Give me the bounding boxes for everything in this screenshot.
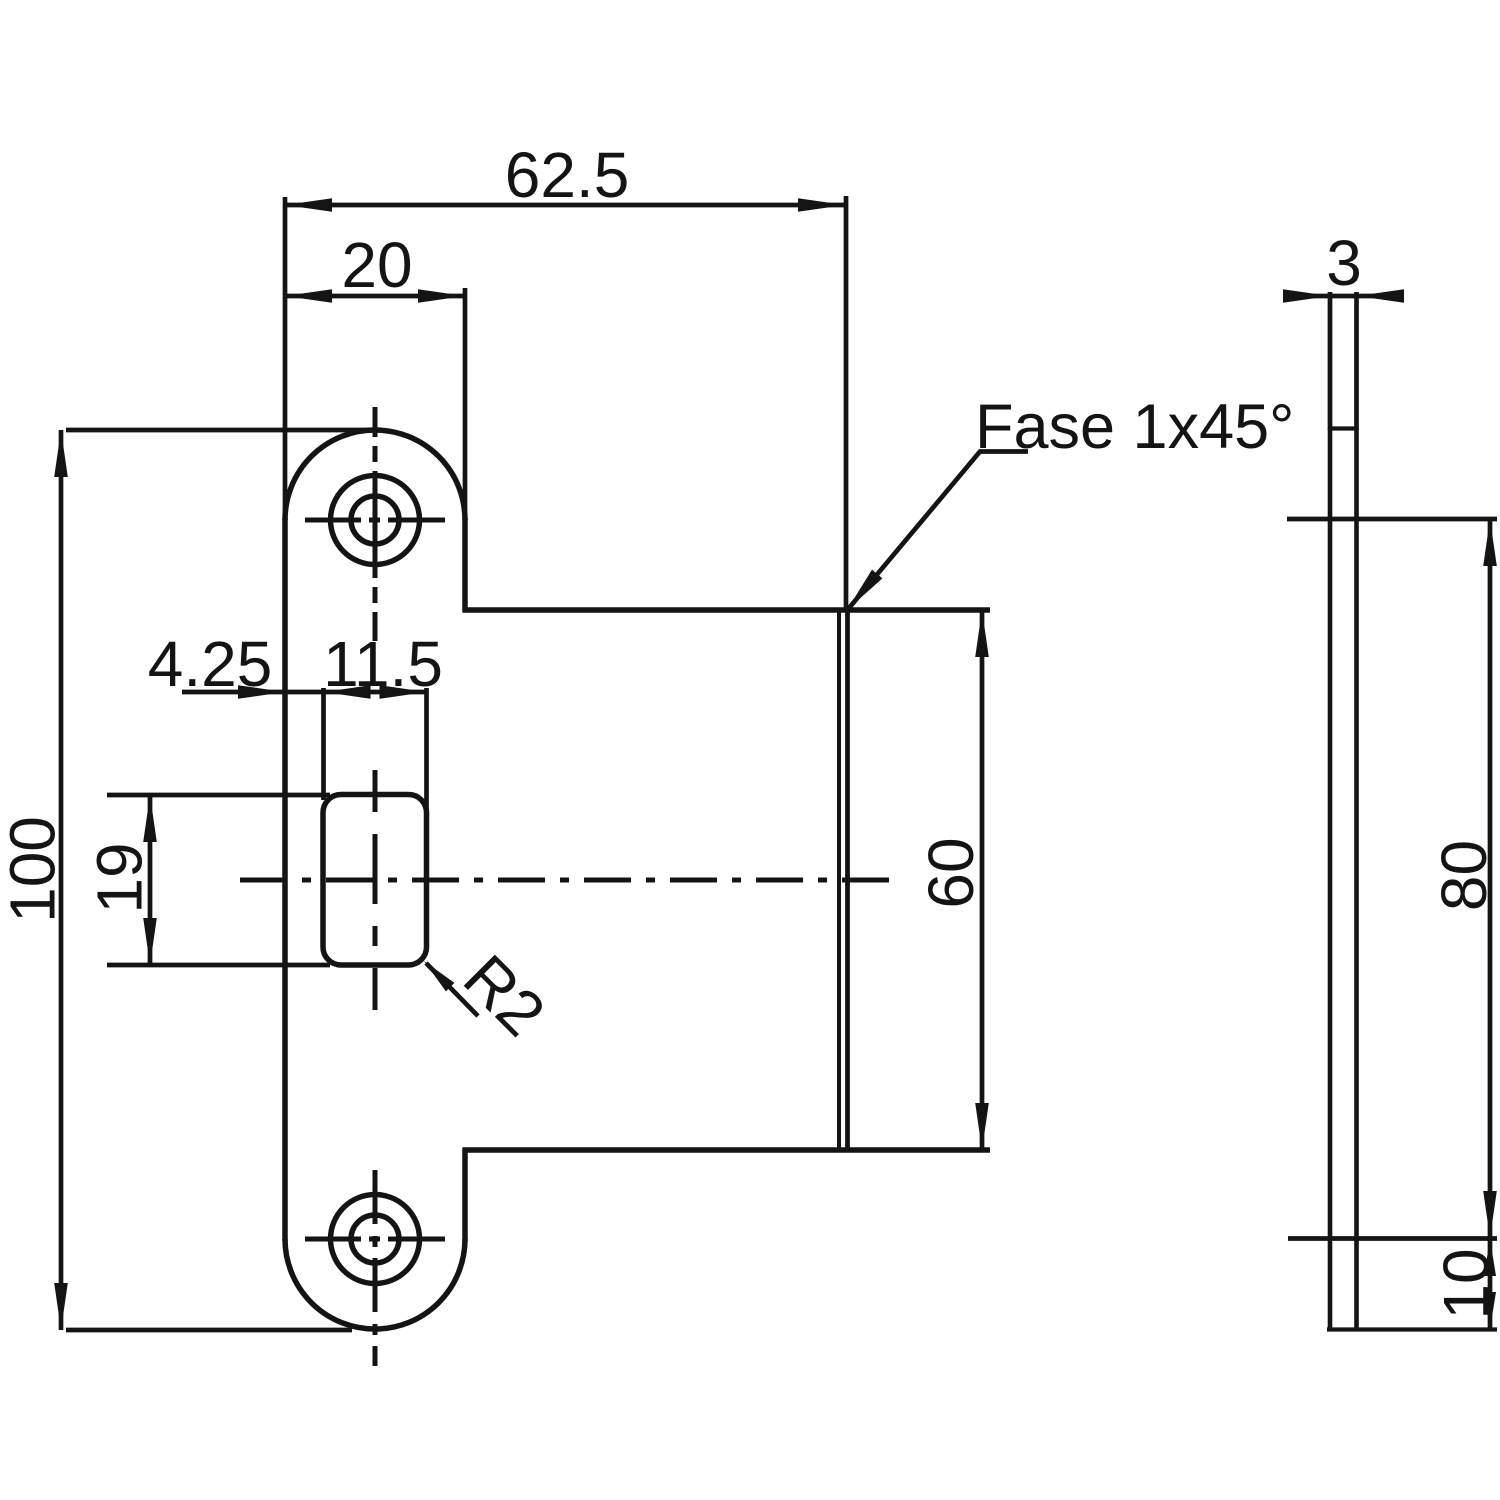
plate top arc [285,430,465,520]
side view top edge [1328,426,1359,430]
arrow 80 bottom [1483,1191,1497,1238]
side view left face [1328,428,1333,1332]
arrow 20 right [418,289,465,303]
top screw hole inner circle [351,496,399,544]
ext: side view hole center top (80 dim) [1287,517,1497,522]
plate right edge lower segment [462,1148,468,1241]
svg-text:Fase 1x45°: Fase 1x45° [975,392,1294,462]
arrow 19 bottom [143,918,157,965]
chamfer outer line (plate right edge) [845,608,850,1150]
plate left edge [282,518,288,1241]
arrow 62.5 right [798,198,845,212]
arrow 3 left (outside, pointing right) [1283,289,1330,303]
ext: side view hole center bottom (80/10 dims) [1288,1236,1497,1241]
side view right face [1354,428,1359,1332]
arrow 3 right (outside, pointing left) [1357,289,1404,303]
svg-text:80: 80 [1428,840,1500,911]
svg-text:100: 100 [0,816,69,923]
ext: plate bottom (100 dim) [66,1328,352,1333]
top screw hole outer circle [331,476,420,565]
chamfer inner line [837,610,841,1150]
ext: slot left (11.5 dim) [321,688,326,800]
arrow 20 left [285,289,332,303]
leader line Fase [849,452,1028,609]
ext: 20-dim right [463,288,468,522]
ext: slot top (19 dim) [107,793,330,798]
ext: side view right face up to 3-dim [1354,292,1359,430]
arrow 10 bottom (short) [1484,1292,1496,1329]
top hole horizontal crosshair [305,518,445,523]
svg-text:62.5: 62.5 [505,139,630,211]
arrow 60 bottom [975,1103,989,1150]
dim line 3 [1285,294,1401,299]
top hole vertical centerline [373,407,378,641]
bottom hole horizontal crosshair [305,1237,445,1242]
svg-text:60: 60 [915,837,987,908]
arrow 60 top [975,610,989,657]
bottom hole vertical centerline [373,1170,378,1366]
plate right edge upper segment [462,518,468,612]
ext: slot bottom (19 dim) [107,963,330,968]
ext: plate left edge up to 62.5/20 dims [283,197,288,525]
dim line 4.25 / 11.5 [182,690,427,695]
arrow 100 bottom [54,1283,68,1330]
svg-text:20: 20 [341,229,412,301]
arrow 11.5 right [380,685,427,699]
ext: side view left face up to 3-dim [1328,292,1333,430]
svg-text:4.25: 4.25 [148,628,273,700]
svg-text:19: 19 [84,842,156,913]
ext: 62.5-dim right / chamfer corner [844,196,849,612]
latch slot rounded rectangle [323,795,427,966]
dim line 62.5 [285,203,845,208]
ext: slot right (11.5 dim) [424,688,429,812]
dim line 80 and 10 [1488,519,1493,1329]
leader line R2 [426,963,478,1016]
ext: plate top (100 dim) [66,428,372,433]
plate bottom arc [285,1239,465,1329]
step box top edge (extended right as 60-dim extension) [463,607,991,613]
arrow 11.5 left [324,685,371,699]
svg-text:10: 10 [1430,1248,1500,1319]
side view bottom edge + 10-dim extension [1327,1327,1497,1331]
arrow 10 top (short) [1484,1239,1496,1276]
arrow 4.25 (outside, pointing right) [238,685,285,699]
main horizontal centerline [240,878,891,883]
step box bottom edge (extended right as 60-dim extension) [463,1147,991,1153]
dim line 19 [148,795,153,965]
svg-text:3: 3 [1326,227,1362,299]
arrow R2 leader [420,957,455,992]
arrow 62.5 left [285,198,332,212]
arrow 100 top [54,430,68,477]
arrow 80 top [1483,519,1497,566]
arrow 19 top [143,795,157,842]
svg-text:11.5: 11.5 [323,628,443,700]
bottom screw hole outer circle [331,1195,420,1284]
dim line 100 [59,430,64,1330]
dim line 60 [980,610,985,1150]
arrow Fase leader [842,570,883,615]
dim line 20 [285,294,465,299]
bottom screw hole inner circle [351,1215,399,1263]
slot vertical centerline [373,770,378,1010]
